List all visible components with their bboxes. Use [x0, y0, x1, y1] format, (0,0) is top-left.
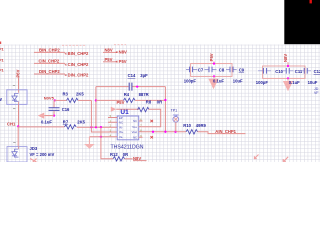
- svg-text:NC: NC: [119, 121, 123, 125]
- net label P6V vertical: [16, 69, 21, 77]
- ground arrow left: [38, 113, 45, 119]
- svg-text:0.1uF: 0.1uF: [41, 119, 52, 124]
- capacitor C10: [258, 68, 284, 74]
- value 10uF C12: [308, 80, 318, 85]
- wire JD1 to CH1 node: [18, 104, 20, 126]
- svg-text:NC: NC: [133, 135, 137, 139]
- junction output column: [164, 99, 166, 101]
- resistor R4: [96, 92, 165, 103]
- svg-text:C10: C10: [275, 69, 283, 74]
- net label N8V bottom: [133, 156, 147, 161]
- wire P5V to cap box: [213, 62, 215, 64]
- wire R3 to node: [78, 99, 91, 101]
- wire N8V: [103, 51, 118, 53]
- capacitor C14: [96, 73, 165, 91]
- svg-text:100pF: 100pF: [256, 80, 269, 85]
- clipped labels right edge: [314, 87, 319, 95]
- net label BIN_CHP2: [39, 48, 60, 53]
- net connector N8V: [116, 49, 128, 54]
- svg-text:0.1uF: 0.1uF: [213, 78, 224, 83]
- wire R8 to V+: [143, 109, 161, 127]
- junction box top P5V: [213, 62, 215, 64]
- svg-text:VF = 200 mV: VF = 200 mV: [30, 152, 55, 157]
- junction Vout dots: [152, 131, 177, 133]
- net label N0V5: [44, 96, 55, 101]
- wire P5V to R8: [116, 108, 139, 110]
- svg-text:« DIN_CHP2: « DIN_CHP2: [65, 73, 90, 78]
- ground arrow P5V group: [208, 76, 218, 89]
- net label P5V at U1: [117, 100, 125, 105]
- junction box bottom P5V: [213, 75, 215, 77]
- svg-text:Vs+: Vs+: [132, 125, 137, 129]
- clipped net label fragments at left edge: [0, 48, 4, 73]
- junction feedback: [95, 99, 97, 101]
- ground arrow bottom left clipped: [30, 159, 37, 163]
- junction Vs-: [100, 136, 102, 138]
- net label CIN_CHP2: [39, 59, 60, 64]
- wire P6V to JD1: [18, 78, 20, 90]
- op-amp U1 body THS4211: [108, 115, 143, 140]
- wire CH1 to JD3: [17, 126, 19, 146]
- svg-text:TP1: TP1: [171, 109, 178, 113]
- value 0.1uF C11: [289, 80, 300, 85]
- polarity mark 2: [13, 108, 15, 110]
- net connector CIN_CHP2: [65, 62, 90, 67]
- supply arrow P5V: [111, 107, 116, 112]
- svg-text:2K5: 2K5: [77, 119, 85, 124]
- svg-text:49R9: 49R9: [196, 123, 207, 128]
- clipped label W: [0, 97, 2, 102]
- svg-text:THS4211DGN: THS4211DGN: [111, 145, 144, 151]
- ground arrow N8V group: [283, 78, 293, 91]
- junction box top N8V: [287, 65, 289, 67]
- value 100pF C10: [256, 80, 269, 85]
- svg-text:JD3: JD3: [30, 146, 38, 151]
- svg-text:N8V: N8V: [283, 54, 288, 62]
- clipped ground arrow bottom right: [283, 157, 288, 162]
- net label DIN_CHP2: [39, 69, 60, 74]
- junction row dots: [90, 126, 102, 128]
- wire R7 to U1 IN-: [77, 126, 118, 128]
- svg-text:P5V: P5V: [209, 53, 214, 61]
- svg-text:R12: R12: [110, 152, 118, 157]
- svg-text:R3: R3: [63, 92, 69, 97]
- svg-text:« N8V: « N8V: [116, 49, 128, 54]
- svg-text:BIN_CHP2: BIN_CHP2: [39, 48, 60, 53]
- op-amp U1 designator: [120, 109, 129, 116]
- svg-text:3pF: 3pF: [140, 73, 148, 78]
- capacitor C16: [49, 100, 71, 115]
- black overlay window top-right: [284, 0, 320, 44]
- no-connect cross pin9: [150, 136, 153, 138]
- wire R10 to AIN_CHP1: [198, 132, 246, 134]
- svg-text:P5V: P5V: [117, 100, 125, 105]
- junction box bottom N8V: [287, 77, 289, 79]
- wire Vout row: [143, 131, 187, 133]
- junction CH1: [17, 125, 19, 127]
- polarity mark JD3: [13, 142, 15, 144]
- svg-text:2K5: 2K5: [76, 92, 84, 97]
- svg-text:R10: R10: [183, 123, 191, 128]
- svg-text:N0V5: N0V5: [44, 96, 55, 101]
- svg-text:« P5V: « P5V: [116, 59, 127, 64]
- junction C14: [136, 85, 138, 87]
- svg-text:U1: U1: [120, 109, 129, 116]
- value 0.1uF: [41, 119, 52, 124]
- svg-text:C11: C11: [295, 69, 303, 74]
- resistor R10: [183, 123, 206, 134]
- svg-text:IN-: IN-: [119, 125, 123, 129]
- wire CIN_CHP2: [34, 62, 65, 64]
- wire feedback node down: [95, 87, 97, 128]
- left edge red mark: [0, 42, 1, 45]
- net label N8V vertical cap group: [283, 54, 288, 62]
- svg-text:0R: 0R: [157, 100, 162, 105]
- polarity mark: [13, 85, 15, 87]
- wire N0V5 to R3: [55, 99, 67, 101]
- wire Vs- to R12: [101, 127, 113, 159]
- svg-text:CIN_CHP2: CIN_CHP2: [39, 59, 60, 64]
- clipped flag mark bottom center: [254, 155, 259, 160]
- bypass group box P5V: [191, 64, 232, 77]
- net label AIN_CHP1: [215, 129, 236, 134]
- svg-text:« CIN_CHP2: « CIN_CHP2: [65, 62, 90, 67]
- wire C16 to ground arrow: [44, 115, 54, 117]
- net label P5V: [105, 57, 113, 62]
- value 10uF C9: [233, 78, 243, 83]
- wire DIN_CHP2: [34, 73, 65, 75]
- part number THS4211DGN: [111, 145, 144, 151]
- svg-text:C16: C16: [62, 107, 70, 112]
- wire Vs- rail: [89, 136, 117, 138]
- net label N8V: [105, 48, 113, 53]
- net connector P5V: [116, 59, 127, 64]
- wire P5V: [103, 61, 118, 63]
- svg-text:« BIN_CHP2: « BIN_CHP2: [65, 51, 90, 56]
- resistor R12: [110, 152, 128, 161]
- clipped top row marks: [62, 44, 126, 47]
- junction C16 gnd: [53, 114, 55, 116]
- svg-text:N8V: N8V: [133, 156, 141, 161]
- value 100pF C7: [184, 78, 197, 83]
- svg-text:Vs-: Vs-: [119, 135, 123, 139]
- diode box JD1: [7, 90, 27, 105]
- net label P5V vertical cap group: [209, 53, 214, 61]
- ground arrow U1: [84, 137, 94, 149]
- wire BIN_CHP2: [34, 51, 65, 53]
- svg-text:0.1uF: 0.1uF: [289, 80, 300, 85]
- junction N0V5: [54, 99, 56, 101]
- svg-text:P6V: P6V: [16, 69, 21, 77]
- wire R12 to N8V: [125, 158, 133, 160]
- svg-text:100pF: 100pF: [184, 78, 197, 83]
- svg-text:C9: C9: [239, 68, 245, 73]
- wire to IN+: [91, 127, 117, 132]
- svg-text:IN+: IN+: [119, 130, 124, 134]
- svg-text:DIN_CHP2: DIN_CHP2: [39, 69, 60, 74]
- svg-text:C8: C8: [219, 67, 225, 72]
- svg-text:P5V: P5V: [105, 57, 113, 62]
- resistor R3: [63, 92, 85, 103]
- svg-text:0R: 0R: [123, 152, 128, 157]
- test point TP1: [171, 109, 179, 132]
- wire output column: [164, 87, 166, 132]
- svg-text:Vout: Vout: [132, 130, 138, 134]
- svg-text:887R: 887R: [139, 92, 149, 97]
- svg-text:P1: P1: [0, 48, 4, 52]
- value VF = 200 mV: [30, 152, 55, 157]
- label JD3: [30, 146, 38, 151]
- capacitor C7: [186, 67, 204, 73]
- wire R3 node down: [90, 100, 92, 127]
- svg-text:CH1: CH1: [7, 121, 16, 126]
- capacitor C8: [205, 67, 225, 73]
- svg-text:EP: EP: [119, 116, 123, 120]
- svg-text:R8: R8: [146, 100, 152, 105]
- capacitor C12 clipped: [300, 68, 320, 74]
- svg-text:10uF: 10uF: [233, 78, 243, 83]
- svg-text:P1: P1: [0, 69, 4, 73]
- resistor R7: [63, 119, 86, 129]
- net label CH1: [7, 121, 16, 126]
- svg-text:VF: VF: [314, 91, 319, 95]
- value 0.1uF C8: [213, 78, 224, 83]
- resistor R8: [138, 100, 163, 112]
- svg-text:C14: C14: [128, 73, 136, 78]
- svg-text:C12: C12: [314, 69, 320, 74]
- diode box JD3: [7, 147, 27, 162]
- svg-text:N8V: N8V: [105, 48, 113, 53]
- svg-text:R7: R7: [63, 119, 69, 124]
- wire N8V to cap box: [287, 62, 289, 66]
- svg-text:10uF: 10uF: [308, 80, 318, 85]
- svg-text:AIN_CHP1: AIN_CHP1: [215, 129, 236, 134]
- svg-text:C7: C7: [198, 67, 204, 72]
- svg-text:NC: NC: [133, 119, 137, 123]
- svg-text:R4: R4: [124, 92, 130, 97]
- schematic grid area: [0, 45, 320, 163]
- svg-text:P1: P1: [0, 59, 4, 63]
- wire CH1 to R7: [18, 126, 64, 128]
- svg-text:W: W: [0, 97, 2, 102]
- net connector DIN_CHP2: [65, 73, 90, 78]
- capacitor C11: [282, 68, 303, 74]
- capacitor C9: [226, 67, 245, 73]
- bypass group box N8V: [263, 66, 305, 78]
- net connector BIN_CHP2: [65, 51, 90, 56]
- no-connect cross pin6: [150, 120, 153, 122]
